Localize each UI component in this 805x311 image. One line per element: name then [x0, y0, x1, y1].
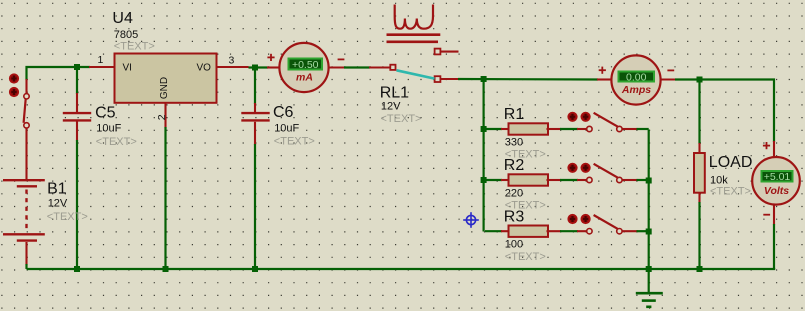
svg-text:VI: VI — [123, 62, 132, 73]
svg-text:mA: mA — [296, 72, 313, 84]
svg-text:0.00: 0.00 — [626, 71, 647, 83]
svg-text:RL1: RL1 — [380, 84, 409, 101]
svg-text:C5: C5 — [95, 105, 116, 122]
svg-text:R2: R2 — [504, 157, 525, 174]
svg-text:R3: R3 — [504, 208, 525, 225]
svg-text:Amps: Amps — [621, 84, 651, 96]
svg-text:<TEXT>: <TEXT> — [114, 40, 155, 52]
svg-text:12V: 12V — [381, 101, 401, 113]
svg-text:+5.01: +5.01 — [764, 171, 791, 183]
svg-text:<TEXT>: <TEXT> — [47, 211, 88, 223]
svg-text:C6: C6 — [273, 104, 294, 121]
svg-text:100: 100 — [505, 239, 523, 251]
svg-text:R1: R1 — [504, 106, 525, 123]
svg-text:10uF: 10uF — [96, 122, 121, 134]
svg-text:<TEXT>: <TEXT> — [505, 251, 546, 263]
svg-text:+0.50: +0.50 — [292, 59, 319, 71]
svg-text:3: 3 — [229, 55, 235, 67]
svg-text:U4: U4 — [112, 10, 133, 27]
svg-text:<TEXT>: <TEXT> — [710, 185, 751, 197]
svg-text:LOAD: LOAD — [709, 154, 753, 171]
svg-text:330: 330 — [505, 137, 523, 149]
svg-text:GND: GND — [159, 77, 170, 99]
svg-text:2: 2 — [156, 114, 168, 120]
svg-text:220: 220 — [505, 188, 523, 200]
svg-text:VO: VO — [197, 62, 212, 73]
svg-text:<TEXT>: <TEXT> — [381, 113, 422, 125]
svg-text:12V: 12V — [48, 198, 68, 210]
svg-text:Volts: Volts — [764, 185, 789, 197]
svg-text:B1: B1 — [47, 180, 67, 197]
svg-text:1: 1 — [98, 54, 104, 66]
svg-text:10uF: 10uF — [274, 122, 299, 134]
svg-text:7805: 7805 — [114, 29, 138, 41]
svg-text:<TEXT>: <TEXT> — [96, 136, 137, 148]
svg-text:<TEXT>: <TEXT> — [274, 136, 315, 148]
